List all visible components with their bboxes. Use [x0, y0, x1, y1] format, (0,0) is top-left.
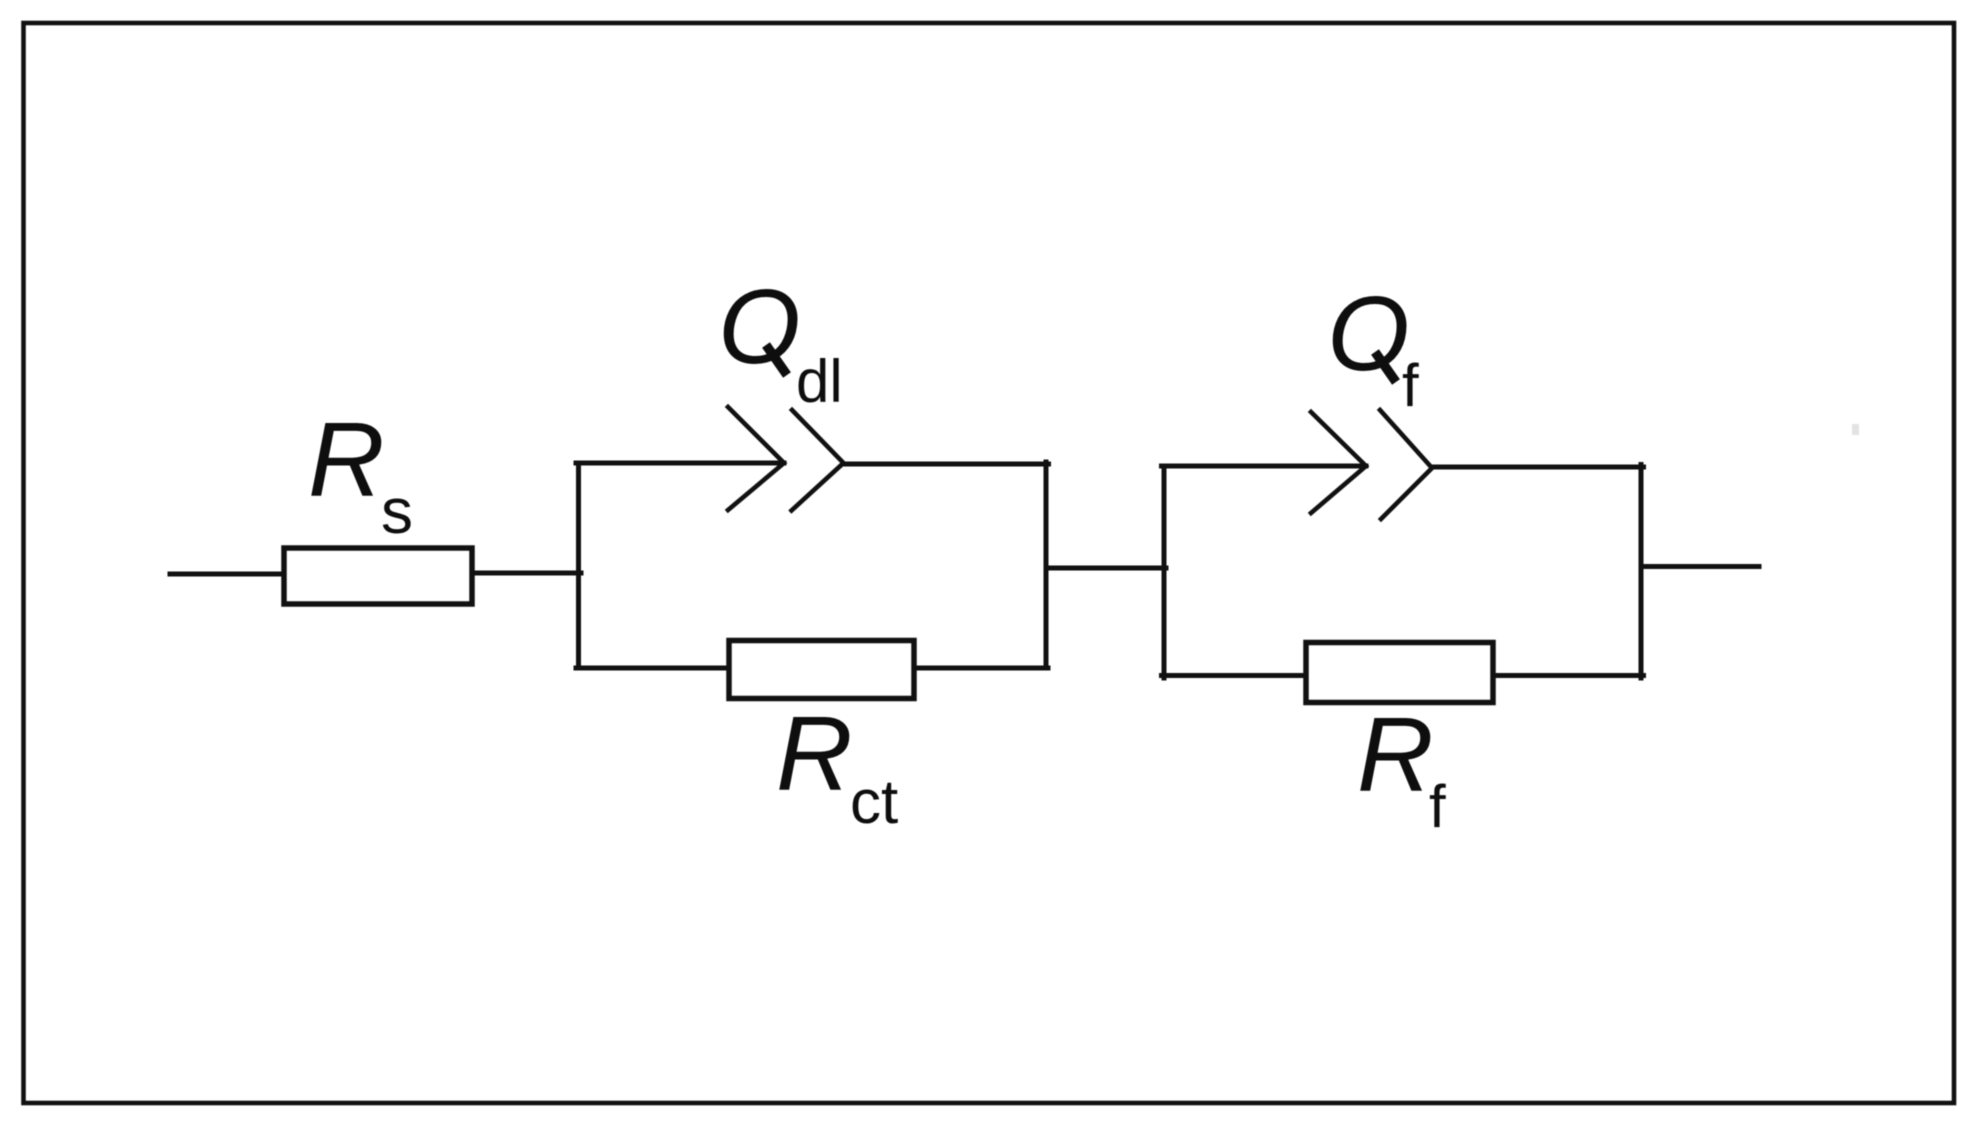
- wire node A to node B (middle link): [1046, 566, 1166, 571]
- wire top branch 2 left segment: [1162, 464, 1367, 469]
- CPE Qf chevron 1: [1311, 412, 1366, 513]
- svg-text:ct: ct: [850, 768, 898, 837]
- label Qf: [1327, 275, 1419, 419]
- node B left vertical of second parallel branch: [1162, 466, 1167, 678]
- wire top branch 2 right segment: [1432, 465, 1644, 470]
- CPE Qdl chevron 2: [792, 410, 844, 511]
- label Qdl: [718, 268, 843, 415]
- wire right vertical of first parallel branch: [1044, 462, 1049, 668]
- resistor Rf body: [1306, 643, 1493, 703]
- svg-text:dl: dl: [796, 348, 843, 415]
- svg-text:R: R: [308, 401, 385, 519]
- resistor Rct body: [729, 641, 914, 699]
- CPE Qdl chevron 1: [728, 407, 784, 510]
- node A left vertical of first parallel branch: [576, 463, 581, 668]
- wire top branch 1 right segment: [844, 462, 1049, 467]
- wire Rs to node A: [470, 571, 581, 576]
- label Rf: [1357, 696, 1446, 840]
- wire top branch 1 left segment: [576, 461, 784, 466]
- label Rs: [308, 401, 413, 547]
- label Rct: [776, 695, 898, 837]
- wire bottom branch 1: [576, 666, 1048, 671]
- svg-text:s: s: [381, 475, 413, 547]
- wire left lead: [170, 572, 286, 577]
- wire right lead: [1641, 564, 1759, 569]
- CPE Qf chevron 2: [1380, 410, 1432, 519]
- svg-text:f: f: [1429, 773, 1446, 840]
- svg-text:R: R: [776, 695, 853, 813]
- stray faint mark: [1852, 424, 1859, 435]
- svg-text:R: R: [1357, 696, 1434, 814]
- wire right vertical of second parallel branch: [1639, 465, 1644, 679]
- resistor Rs body: [284, 548, 472, 604]
- svg-text:f: f: [1402, 352, 1419, 419]
- wire bottom branch 2: [1162, 673, 1644, 678]
